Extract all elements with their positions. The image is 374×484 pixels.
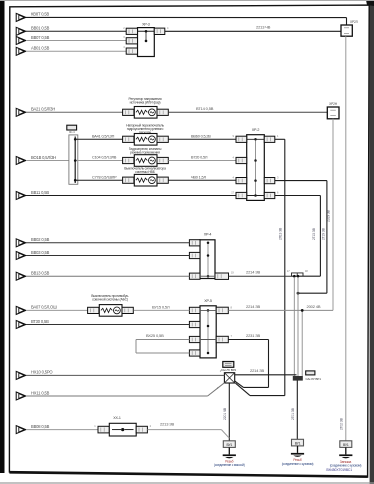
svg-text:ЗС-4: ЗС-4 bbox=[69, 130, 75, 134]
svg-text:режима торможения: режима торможения bbox=[130, 150, 160, 154]
svg-text:С778 0,5Л,ВЛР: С778 0,5Л,ВЛР bbox=[92, 175, 117, 179]
svg-text:2214 ЗВ: 2214 ЗВ bbox=[246, 269, 261, 274]
svg-text:(соединение с кузовом): (соединение с кузовом) bbox=[282, 462, 314, 466]
svg-text:ХР-3: ХР-3 bbox=[142, 22, 150, 26]
svg-text:2231 ЗВ: 2231 ЗВ bbox=[246, 333, 261, 338]
svg-text:ХР-5: ХР-5 bbox=[204, 299, 212, 303]
svg-text:ВТ14 0,5В: ВТ14 0,5В bbox=[196, 106, 214, 111]
svg-text:ВТ30 0,5В: ВТ30 0,5В bbox=[31, 319, 49, 324]
svg-text:2Г19 ЗВ: 2Г19 ЗВ bbox=[321, 227, 325, 240]
svg-text:2Г01 ЗВ: 2Г01 ЗВ bbox=[291, 407, 295, 420]
svg-text:ХР2Н: ХР2Н bbox=[329, 102, 338, 106]
svg-text:2201 ЧВ: 2201 ЧВ bbox=[223, 407, 227, 420]
svg-text:АВ01 0,5В: АВ01 0,5В bbox=[31, 46, 50, 51]
svg-text:ЛЖ450ХТ019ВС1: ЛЖ450ХТ019ВС1 bbox=[326, 468, 352, 472]
svg-text:ВВ03 0,5В: ВВ03 0,5В bbox=[31, 250, 50, 255]
svg-text:ВВ07 0,5В: ВВ07 0,5В bbox=[31, 35, 50, 40]
svg-text:ВУ1: ВУ1 bbox=[227, 443, 233, 447]
svg-text:ЧВ0 1,5Л: ЧВ0 1,5Л bbox=[191, 175, 206, 179]
svg-text:ВУ15 0,5Л: ВУ15 0,5Л bbox=[152, 304, 170, 309]
svg-text:ХХ-1: ХХ-1 bbox=[113, 416, 121, 420]
svg-text:2213 ЧВ: 2213 ЧВ bbox=[256, 24, 271, 29]
svg-text:2Г02 ЗВ: 2Г02 ЗВ bbox=[339, 417, 343, 430]
svg-text:ВВ02 0,5В: ВВ02 0,5В bbox=[31, 237, 50, 242]
svg-text:С/м ЛУ ВР1: С/м ЛУ ВР1 bbox=[306, 377, 322, 381]
svg-text:ВХ25 0,5В: ВХ25 0,5В bbox=[146, 333, 164, 338]
svg-text:совочной системы (АБС): совочной системы (АБС) bbox=[92, 298, 128, 302]
svg-text:ВВ01 0,5В: ВВ01 0,5В bbox=[31, 26, 50, 31]
svg-text:ВВ08 0,5В: ВВ08 0,5В bbox=[31, 424, 50, 429]
svg-text:КВ8Т 0,5В: КВ8Т 0,5В bbox=[31, 12, 50, 17]
svg-text:ВВ13 0,5В: ВВ13 0,5В bbox=[31, 271, 50, 276]
svg-text:ХР-2: ХР-2 bbox=[252, 128, 260, 132]
svg-text:ХР-4: ХР-4 bbox=[204, 233, 212, 237]
svg-text:С104 0,5Л,ЗЛВ: С104 0,5Л,ЗЛВ bbox=[92, 156, 117, 160]
svg-text:источника (ИЛИ фар): источника (ИЛИ фар) bbox=[130, 101, 161, 105]
svg-text:ВО1В 0,5Л/ЗН: ВО1В 0,5Л/ЗН bbox=[31, 155, 56, 160]
svg-text:НХ10 0,5РО: НХ10 0,5РО bbox=[31, 370, 52, 375]
svg-text:НХ11 0,5В: НХ11 0,5В bbox=[31, 390, 50, 395]
svg-text:ХР2Л: ХР2Л bbox=[350, 20, 358, 24]
svg-text:2Г13 ЗВ: 2Г13 ЗВ bbox=[312, 227, 316, 240]
svg-text:ВУ1: ВУ1 bbox=[295, 441, 301, 445]
svg-text:С/м ЛУ ВР2: С/м ЛУ ВР2 bbox=[221, 368, 237, 372]
svg-text:В720 0,5Л: В720 0,5Л bbox=[191, 156, 208, 160]
svg-text:системы НВБ: системы НВБ bbox=[135, 170, 156, 174]
svg-text:ВА41 0,5Л,ЗП: ВА41 0,5Л,ЗП bbox=[92, 134, 115, 138]
svg-text:ВУ1: ВУ1 bbox=[343, 443, 349, 447]
svg-text:(соединение с массой): (соединение с массой) bbox=[214, 463, 245, 467]
svg-text:ВА07 0,5Л,ОШ: ВА07 0,5Л,ОШ bbox=[31, 305, 57, 310]
svg-text:2002 4В: 2002 4В bbox=[307, 304, 321, 309]
svg-text:ВВ60 0,5,2В: ВВ60 0,5,2В bbox=[191, 134, 211, 138]
svg-text:(соединение с кузовом): (соединение с кузовом) bbox=[330, 464, 362, 468]
svg-text:2213 ЗВ: 2213 ЗВ bbox=[160, 422, 175, 427]
svg-text:2Л13 ЗВ: 2Л13 ЗВ bbox=[279, 227, 283, 240]
svg-text:2214 ЗВ: 2214 ЗВ bbox=[246, 304, 261, 309]
svg-text:ВА21 0,5Л/ЗН: ВА21 0,5Л/ЗН bbox=[31, 107, 55, 112]
svg-text:2214 ЗВ: 2214 ЗВ bbox=[250, 368, 265, 373]
svg-text:ВВ11 0,5В: ВВ11 0,5В bbox=[31, 190, 49, 195]
